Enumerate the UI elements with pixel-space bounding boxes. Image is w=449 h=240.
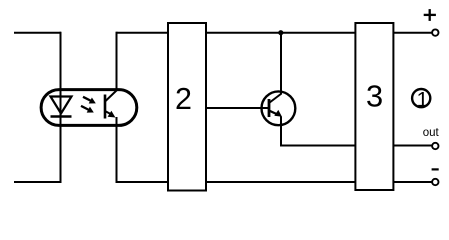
wire out terminal [393, 145, 432, 147]
minus label [432, 168, 439, 170]
wire opto to block2 top [117, 32, 169, 34]
pin label 1 [412, 88, 430, 112]
block 3 [355, 23, 393, 190]
wire plus terminal [393, 32, 432, 34]
block 2 [168, 23, 206, 191]
optocoupler U1 body [41, 90, 137, 126]
junction dot [278, 30, 283, 35]
wire bottom bus [206, 181, 355, 183]
wire phototransistor collector [116, 32, 118, 91]
wire phototransistor emitter [116, 117, 118, 183]
svg-text:out: out [423, 127, 440, 139]
svg-text:3: 3 [366, 79, 383, 114]
terminal out [432, 143, 438, 149]
wire LED vertical [60, 32, 62, 183]
terminal plus [432, 29, 438, 35]
LED D1 [51, 97, 72, 117]
transistor Q1 [262, 91, 296, 125]
phototransistor [105, 90, 117, 119]
wire input plus stub [14, 32, 61, 34]
wire emitter to out [281, 117, 355, 146]
wire input minus stub [14, 181, 61, 183]
wire base [206, 107, 269, 109]
svg-text:1: 1 [417, 88, 429, 112]
wire top bus [206, 32, 355, 34]
terminal minus [432, 179, 438, 185]
wire collector [280, 33, 282, 95]
wire minus terminal [393, 181, 432, 183]
wire opto to block2 bottom [117, 181, 169, 183]
plus label [424, 9, 436, 21]
light arrows [81, 97, 96, 113]
svg-text:2: 2 [175, 82, 192, 116]
